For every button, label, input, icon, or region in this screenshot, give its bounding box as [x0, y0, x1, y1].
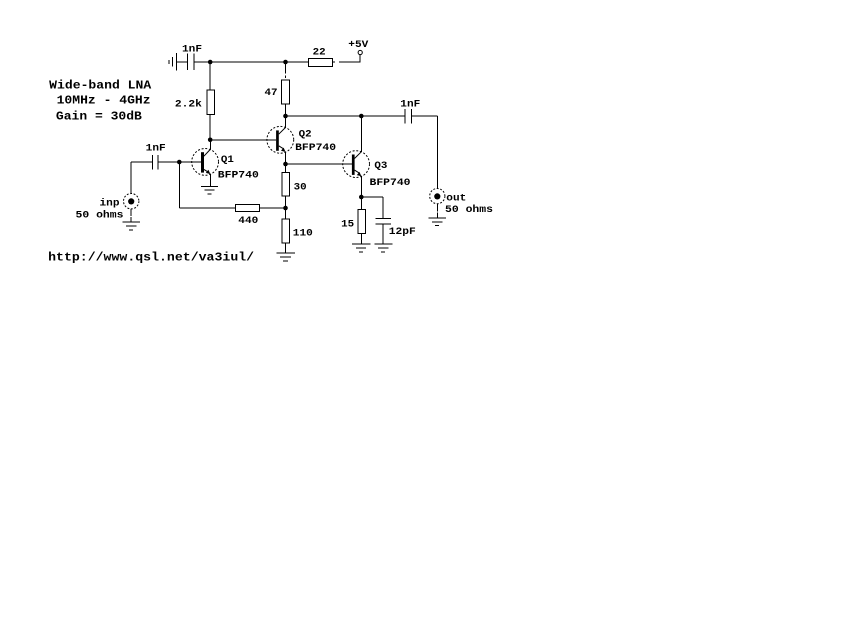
wire R22 right lead dash [332, 61, 335, 63]
wire C4 riser [382, 197, 384, 218]
wire to +5V corner [339, 61, 360, 63]
transistor Q1 base bar [201, 152, 204, 172]
transistor Q2 circle [267, 126, 294, 153]
wire Q3 emitter node to C4 [361, 196, 383, 198]
wire feedback to R440 [179, 207, 235, 209]
node base Q1: wire down to feedback [178, 162, 180, 208]
svg-text:Gain = 30dB: Gain = 30dB [56, 110, 142, 123]
wire Q2 collector vertical [285, 116, 287, 128]
transistor Q3 circle [343, 151, 370, 178]
transistor Q1 emitter diagonal [204, 169, 209, 172]
svg-text:15: 15 [341, 219, 354, 230]
ground G1 under Q1 [201, 186, 218, 194]
svg-text:1nF: 1nF [182, 45, 202, 56]
terminal inp: center dot [128, 198, 134, 204]
capacitor C3 1nF output coupling [405, 109, 412, 124]
wire R2.2k to Q1 collector node [209, 114, 211, 139]
svg-text:BFP740: BFP740 [370, 178, 411, 189]
svg-text:30: 30 [294, 182, 307, 193]
svg-text:1nF: 1nF [146, 144, 166, 155]
wire C3 to output corner [412, 115, 438, 117]
transistor Q1 collector diagonal [204, 149, 210, 156]
resistor R22 (22 ohm) horizontal [309, 58, 333, 66]
svg-text:47: 47 [265, 88, 278, 99]
wire node B to R110 [285, 208, 287, 219]
wire gnd to C1 [177, 61, 188, 63]
wire down to out terminal [436, 116, 438, 188]
svg-text:+5V: +5V [348, 40, 368, 51]
+5V terminal open circle [358, 50, 362, 54]
svg-text:50 ohms: 50 ohms [445, 204, 493, 216]
svg-text:50 ohms: 50 ohms [76, 209, 124, 221]
node Q3 emitter junction dot [359, 195, 364, 200]
transistor Q3 base bar [352, 155, 355, 175]
transistor Q3 emitter arrow [357, 172, 362, 176]
svg-text:BFP740: BFP740 [295, 143, 336, 154]
svg-text:inp: inp [100, 198, 120, 210]
transistor Q2 base bar [276, 130, 279, 150]
wire Q1 emitter to ground [209, 174, 211, 187]
svg-text:Q2: Q2 [299, 130, 312, 141]
terminal out: dotted ring [430, 189, 445, 204]
svg-text:Q1: Q1 [221, 155, 234, 166]
svg-text:Wide-band LNA: Wide-band LNA [49, 80, 151, 93]
ground G3 under R110 [277, 253, 296, 261]
transistor Q1 emitter arrow [206, 170, 211, 174]
wire node to R30 [285, 164, 287, 172]
wire Q1 collector vertical [209, 140, 211, 150]
resistor R15 vertical [358, 210, 366, 234]
node Q1 collector junction dot [208, 138, 213, 143]
wire top rail C1 to R22 [194, 61, 308, 63]
svg-text:22: 22 [313, 47, 326, 58]
node Q1 base junction dot [177, 160, 182, 165]
terminal out: center dot [434, 193, 440, 199]
resistor R110 vertical [282, 219, 290, 243]
ground G5 under C4 [375, 244, 393, 252]
wire R30 to node B [285, 196, 287, 208]
resistor R30 vertical [282, 172, 289, 196]
node Q2 collector junction dot [283, 114, 288, 119]
svg-text:out: out [446, 193, 466, 204]
wire input cap left [131, 161, 152, 163]
wire input terminal riser [130, 162, 132, 193]
node B junction dot [283, 206, 288, 211]
resistor R47 vertical [282, 80, 290, 104]
transistor Q1 circle [192, 149, 219, 176]
resistor R2.2k vertical [207, 90, 214, 114]
node A junction dot [208, 60, 213, 65]
wire R47 top lead with dash [285, 62, 287, 74]
ground G7 sideways at top-left bypass [169, 53, 177, 71]
transistor Q2 emitter diagonal [279, 146, 284, 149]
svg-text:1nF: 1nF [400, 100, 420, 111]
ground G6 output [428, 218, 446, 226]
ground G2 input [122, 222, 140, 230]
wire C4 to ground [382, 224, 384, 244]
svg-text:10MHz - 4GHz: 10MHz - 4GHz [57, 95, 151, 108]
capacitor C4 12pF [375, 218, 391, 224]
wire Q3 collector vertical [360, 116, 362, 152]
wire Q2 emitter down to node [285, 152, 287, 164]
wire Q3 emitter down [360, 176, 362, 197]
transistor Q3 collector diagonal [355, 152, 362, 159]
svg-text:440: 440 [238, 216, 258, 227]
svg-text:http://www.qsl.net/va3iul/: http://www.qsl.net/va3iul/ [48, 252, 254, 265]
wire Q3 emitter node to R15 [360, 197, 362, 210]
node Q2 emitter junction dot [283, 162, 288, 167]
svg-text:BFP740: BFP740 [218, 170, 259, 181]
svg-text:Q3: Q3 [374, 161, 387, 172]
node Q3 collector junction dot [359, 114, 364, 119]
wire Q2 collector rail to output cap [286, 115, 406, 117]
wire Q2 emitter node to Q3 base [286, 163, 352, 165]
capacitor C1 1nF (top-left bypass) [188, 54, 195, 71]
wire R110 to ground [285, 243, 287, 253]
svg-text:2.2k: 2.2k [175, 99, 202, 111]
wire out terminal to ground [436, 204, 438, 212]
wire C2 to Q1 base [158, 161, 201, 163]
node supply junction dot [283, 60, 288, 65]
wire up to +5V terminal [359, 55, 361, 63]
transistor Q3 emitter diagonal [355, 170, 360, 173]
svg-text:110: 110 [293, 229, 313, 240]
terminal inp: dotted ring [124, 194, 139, 209]
transistor Q2 emitter arrow [281, 148, 286, 152]
wire node A down to R2.2k [209, 62, 211, 90]
wire R15 to ground [360, 234, 362, 244]
ground G4 under R15 [352, 244, 370, 252]
svg-text:12pF: 12pF [389, 227, 416, 238]
wire inp terminal to ground [130, 209, 132, 216]
resistor R440 horizontal [235, 205, 259, 212]
wire R47 to Q2 collector node [285, 104, 287, 116]
wire Q1 collector node to Q2 base [210, 139, 276, 141]
capacitor C2 1nF input coupling [153, 155, 159, 170]
transistor Q2 collector diagonal [279, 128, 286, 135]
wire R440 to node B [260, 207, 286, 209]
